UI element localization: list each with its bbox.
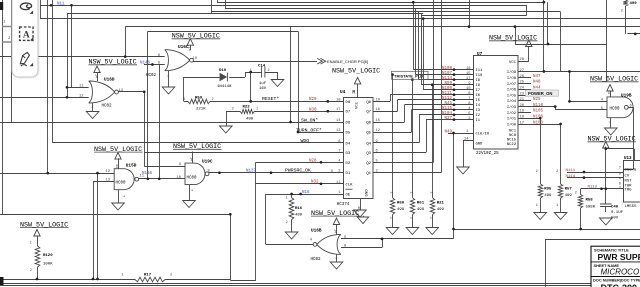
svg-text:I7: I7 [476, 89, 481, 93]
svg-text:R: R [352, 90, 355, 96]
svg-text:20: 20 [520, 104, 525, 108]
svg-text:2: 2 [268, 69, 270, 73]
svg-text:Q5: Q5 [366, 132, 371, 136]
svg-text:I2: I2 [476, 114, 481, 118]
svg-text:Q1: Q1 [366, 172, 371, 176]
svg-text:2: 2 [212, 98, 214, 102]
svg-text:16V: 16V [259, 87, 267, 91]
svg-text:2: 2 [30, 269, 32, 273]
svg-text:NC22: NC22 [507, 143, 517, 147]
svg-text:SW_ON*: SW_ON* [301, 117, 318, 123]
svg-text:1: 1 [30, 242, 32, 246]
svg-text:7: 7 [121, 195, 125, 197]
svg-text:R61: R61 [417, 202, 425, 206]
svg-text:13: 13 [119, 89, 124, 93]
svg-text:A: A [23, 31, 30, 41]
svg-text:U16B: U16B [311, 229, 322, 234]
svg-text:DSCHG: DSCHG [625, 169, 637, 173]
svg-text:N112: N112 [588, 186, 598, 190]
svg-text:17: 17 [466, 77, 471, 81]
svg-text:28: 28 [520, 58, 525, 62]
svg-text:2: 2 [232, 108, 234, 112]
svg-text:GND: GND [476, 143, 484, 147]
svg-text:2: 2 [286, 221, 288, 225]
svg-text:1: 1 [428, 191, 432, 193]
svg-text:Q2: Q2 [366, 162, 371, 166]
svg-text:7: 7 [607, 121, 611, 123]
svg-text:N114: N114 [566, 175, 576, 179]
svg-text:1: 1 [389, 191, 393, 193]
svg-text:10: 10 [466, 87, 471, 91]
svg-text:16: 16 [466, 67, 471, 71]
svg-text:N32: N32 [311, 181, 319, 185]
svg-text:50V: 50V [611, 217, 619, 221]
svg-text:N11: N11 [57, 3, 65, 7]
svg-text:U16D: U16D [104, 78, 115, 83]
svg-text:14: 14 [332, 229, 336, 233]
svg-text:21: 21 [520, 98, 525, 102]
svg-text:NSW_5V_LOGIC: NSW_5V_LOGIC [588, 136, 636, 144]
svg-text:R58: R58 [586, 199, 594, 203]
svg-text:I11: I11 [476, 69, 484, 73]
svg-text:LM555: LM555 [625, 205, 638, 209]
svg-text:N106: N106 [533, 116, 544, 120]
svg-text:Q8: Q8 [366, 101, 371, 105]
svg-text:D3: D3 [346, 152, 351, 156]
svg-text:14: 14 [189, 157, 193, 161]
svg-text:Q7: Q7 [366, 111, 371, 115]
svg-text:NSW_5V_LOGIC: NSW_5V_LOGIC [173, 143, 221, 151]
svg-text:I6: I6 [476, 94, 481, 98]
svg-text:14: 14 [606, 90, 610, 94]
svg-text:N114: N114 [442, 77, 453, 81]
svg-text:N29: N29 [309, 98, 317, 102]
svg-text:2: 2 [575, 192, 577, 196]
svg-text:1: 1 [183, 98, 185, 102]
svg-text:N16: N16 [302, 191, 310, 195]
svg-text:CV: CV [625, 175, 630, 179]
svg-text:NC1: NC1 [509, 130, 517, 134]
svg-text:0.1UF: 0.1UF [611, 211, 624, 215]
svg-text:11: 11 [336, 181, 341, 185]
svg-text:N37: N37 [444, 117, 452, 121]
svg-text:U15D: U15D [126, 164, 137, 169]
svg-text:1: 1 [256, 108, 258, 112]
svg-text:I/O2: I/O2 [507, 111, 517, 116]
svg-text:16: 16 [376, 108, 381, 112]
svg-text:26: 26 [520, 75, 525, 79]
svg-text:499: 499 [544, 194, 552, 198]
svg-text:499: 499 [630, 2, 638, 6]
svg-text:R21: R21 [437, 202, 445, 206]
svg-text:PWRSRC_OK: PWRSRC_OK [285, 167, 311, 173]
svg-text:I9: I9 [476, 79, 481, 83]
svg-text:14: 14 [336, 119, 341, 123]
svg-text:MICROCO: MICROCO [601, 268, 640, 277]
svg-text:Q6: Q6 [366, 122, 371, 126]
svg-text:D10: D10 [219, 69, 227, 73]
svg-text:499: 499 [417, 208, 425, 212]
svg-text:I4: I4 [476, 104, 481, 108]
svg-text:TRG: TRG [625, 189, 633, 193]
svg-text:D4: D4 [346, 142, 351, 146]
svg-text:NSW_5V_LOGIC: NSW_5V_LOGIC [311, 210, 359, 218]
svg-text:N103: N103 [533, 121, 544, 125]
svg-text:U7: U7 [477, 52, 483, 57]
svg-text:1: 1 [121, 274, 123, 278]
svg-text:11: 11 [79, 85, 84, 89]
svg-text:N99: N99 [444, 82, 452, 86]
svg-text:N115: N115 [442, 107, 453, 111]
svg-text:Q3: Q3 [366, 152, 371, 156]
svg-text:N108: N108 [442, 67, 453, 71]
svg-text:I8: I8 [476, 84, 481, 88]
svg-text:WDO: WDO [301, 138, 310, 144]
svg-text:D8: D8 [346, 101, 351, 105]
svg-text:NSW_5V_LOGIC: NSW_5V_LOGIC [94, 146, 142, 154]
svg-text:N112: N112 [442, 97, 453, 101]
svg-text:100K: 100K [43, 263, 53, 267]
svg-text:499: 499 [565, 194, 573, 198]
svg-text:R60: R60 [397, 202, 405, 206]
svg-text:2: 2 [556, 170, 558, 174]
svg-text:R95: R95 [544, 188, 552, 192]
svg-text:GND: GND [365, 189, 369, 197]
svg-text:N104: N104 [442, 112, 453, 116]
svg-text:D7: D7 [346, 111, 351, 115]
svg-text:499: 499 [295, 214, 303, 218]
svg-text:NSW_5V_LOGIC: NSW_5V_LOGIC [89, 59, 137, 67]
svg-text:2: 2 [170, 274, 172, 278]
svg-text:N45: N45 [444, 102, 452, 106]
svg-text:I/O4: I/O4 [507, 99, 517, 104]
svg-text:NC8: NC8 [509, 134, 517, 138]
svg-text:I/O1: I/O1 [507, 117, 517, 122]
svg-text:NSW_5V_LOGIC: NSW_5V_LOGIC [172, 33, 220, 41]
svg-text:I/O6: I/O6 [507, 88, 517, 93]
svg-text:1: 1 [536, 204, 538, 208]
svg-text:N137: N137 [246, 169, 257, 173]
svg-text:14: 14 [464, 137, 469, 141]
svg-text:N30: N30 [309, 108, 317, 112]
svg-text:1: 1 [250, 69, 252, 73]
svg-text:HC00: HC00 [187, 177, 198, 181]
svg-text:7: 7 [332, 257, 336, 259]
svg-text:12: 12 [376, 129, 381, 133]
svg-text:D6: D6 [346, 122, 351, 126]
svg-text:10: 10 [176, 176, 181, 180]
svg-text:I1: I1 [476, 119, 481, 123]
svg-text:1: 1 [556, 204, 558, 208]
svg-text:NSW_5V_LOGIC: NSW_5V_LOGIC [332, 68, 380, 76]
svg-text:N48: N48 [533, 81, 541, 85]
svg-text:R22: R22 [243, 105, 251, 109]
svg-text:13: 13 [105, 179, 110, 183]
svg-text:10: 10 [193, 57, 198, 61]
svg-text:19: 19 [520, 110, 525, 114]
svg-text:15: 15 [466, 72, 471, 76]
svg-text:CLK/IO: CLK/IO [476, 132, 490, 137]
svg-text:2: 2 [621, 10, 623, 14]
svg-text:N107: N107 [442, 72, 453, 76]
svg-text:1: 1 [286, 197, 288, 201]
svg-text:D2: D2 [346, 162, 351, 166]
svg-text:NSW_5V_LOGIC: NSW_5V_LOGIC [590, 76, 638, 84]
svg-text:D5: D5 [346, 132, 351, 136]
svg-text:R16: R16 [295, 207, 303, 211]
svg-text:27: 27 [520, 69, 525, 73]
svg-text:I/O0: I/O0 [507, 122, 517, 127]
svg-text:598K: 598K [586, 206, 596, 210]
svg-text:12: 12 [79, 94, 84, 98]
svg-text:1N4148: 1N4148 [217, 85, 232, 89]
svg-text:19: 19 [376, 98, 381, 102]
svg-text:HC02: HC02 [102, 105, 113, 109]
svg-text:22V10Z_25: 22V10Z_25 [476, 152, 499, 156]
svg-text:D1: D1 [346, 172, 351, 176]
svg-text:VCC: VCC [509, 61, 517, 65]
svg-text:I3: I3 [476, 109, 481, 113]
svg-text:15: 15 [376, 119, 381, 123]
svg-text:N111: N111 [566, 169, 576, 173]
svg-text:18: 18 [336, 98, 341, 102]
svg-text:C40: C40 [611, 206, 619, 210]
svg-text:NSW_5V_LOGIC: NSW_5V_LOGIC [489, 35, 537, 43]
svg-text:DTC-200: DTC-200 [601, 283, 638, 287]
svg-text:14: 14 [186, 47, 190, 51]
svg-text:25: 25 [520, 81, 525, 85]
svg-text:17: 17 [520, 121, 525, 125]
svg-text:R17: R17 [144, 274, 152, 278]
svg-text:14: 14 [94, 74, 98, 78]
svg-text:HC02: HC02 [311, 258, 322, 262]
svg-text:TRISTATE_PLD: TRISTATE_PLD [394, 73, 423, 78]
svg-text:221K: 221K [196, 108, 206, 112]
svg-text:2: 2 [428, 217, 432, 219]
svg-text:N105: N105 [533, 110, 544, 114]
svg-text:N110: N110 [533, 104, 544, 108]
svg-text:C14: C14 [258, 64, 266, 68]
svg-text:N47: N47 [533, 75, 541, 79]
svg-text:N44: N44 [533, 87, 541, 91]
svg-text:N28: N28 [309, 159, 317, 163]
svg-text:R120: R120 [43, 254, 53, 258]
svg-text:2: 2 [389, 217, 393, 219]
svg-text:1: 1 [409, 191, 413, 193]
svg-text:1uF: 1uF [259, 82, 267, 86]
svg-text:2: 2 [536, 170, 538, 174]
svg-text:499: 499 [246, 118, 254, 122]
svg-text:I/O3: I/O3 [507, 105, 517, 110]
svg-text:RESET*: RESET* [262, 96, 279, 102]
svg-text:U19C: U19C [202, 159, 213, 164]
svg-text:12: 12 [105, 170, 110, 174]
svg-text:R59: R59 [195, 96, 203, 100]
svg-text:HC02: HC02 [146, 74, 157, 78]
svg-text:POWER_ON: POWER_ON [528, 91, 552, 96]
svg-text:7: 7 [89, 106, 93, 108]
svg-text:OE: OE [346, 194, 351, 198]
svg-text:N25: N25 [533, 98, 541, 102]
svg-text:U19B: U19B [621, 94, 632, 99]
svg-text:14: 14 [114, 164, 118, 168]
svg-text:RST: RST [625, 180, 633, 184]
svg-text:I/O5: I/O5 [507, 93, 517, 98]
svg-text:N109: N109 [442, 87, 453, 91]
svg-text:7: 7 [619, 167, 621, 171]
svg-text:499: 499 [437, 208, 445, 212]
svg-text:I10: I10 [476, 74, 484, 78]
svg-text:Q4: Q4 [366, 142, 371, 146]
svg-text:18: 18 [520, 116, 525, 120]
svg-text:HC00: HC00 [116, 182, 127, 186]
svg-text:7: 7 [164, 75, 168, 77]
svg-text:13: 13 [336, 129, 341, 133]
svg-text:NC15: NC15 [507, 139, 517, 143]
svg-text:N146: N146 [140, 61, 151, 65]
svg-text:TURN_OFF*: TURN_OFF* [296, 127, 322, 133]
svg-text:DOC NUMBER|DOC TYPE: DOC NUMBER|DOC TYPE [593, 277, 640, 282]
svg-text:I/O7: I/O7 [507, 82, 516, 87]
svg-text:N49: N49 [444, 130, 452, 134]
svg-text:I/O8: I/O8 [507, 76, 517, 81]
svg-text:HC374: HC374 [337, 203, 350, 207]
svg-text:CLK: CLK [346, 183, 354, 187]
svg-text:HC00: HC00 [610, 108, 621, 112]
svg-text:24: 24 [520, 87, 525, 91]
svg-text:U4: U4 [340, 90, 346, 95]
svg-text:11: 11 [140, 175, 145, 179]
svg-text:7: 7 [338, 149, 340, 153]
svg-text:7: 7 [468, 97, 470, 101]
svg-text:U13: U13 [624, 157, 632, 161]
svg-text:NSW_5V_LOGIC: NSW_5V_LOGIC [20, 221, 68, 229]
svg-text:17: 17 [336, 108, 341, 112]
svg-text:VCC: VCC [356, 101, 360, 109]
svg-text:N111: N111 [442, 92, 453, 96]
svg-text:23: 23 [520, 92, 525, 96]
svg-text:7: 7 [189, 189, 193, 191]
svg-text:10: 10 [356, 206, 360, 211]
svg-text:I/O9: I/O9 [507, 70, 517, 75]
svg-text:R57: R57 [565, 188, 573, 192]
svg-text:I5: I5 [476, 99, 481, 103]
svg-text:PWR SUPP: PWR SUPP [598, 252, 640, 262]
svg-text:2: 2 [409, 217, 413, 219]
svg-text:499: 499 [397, 208, 405, 212]
svg-text:ENABLE_CHGR PG[6]: ENABLE_CHGR PG[6] [327, 59, 368, 64]
